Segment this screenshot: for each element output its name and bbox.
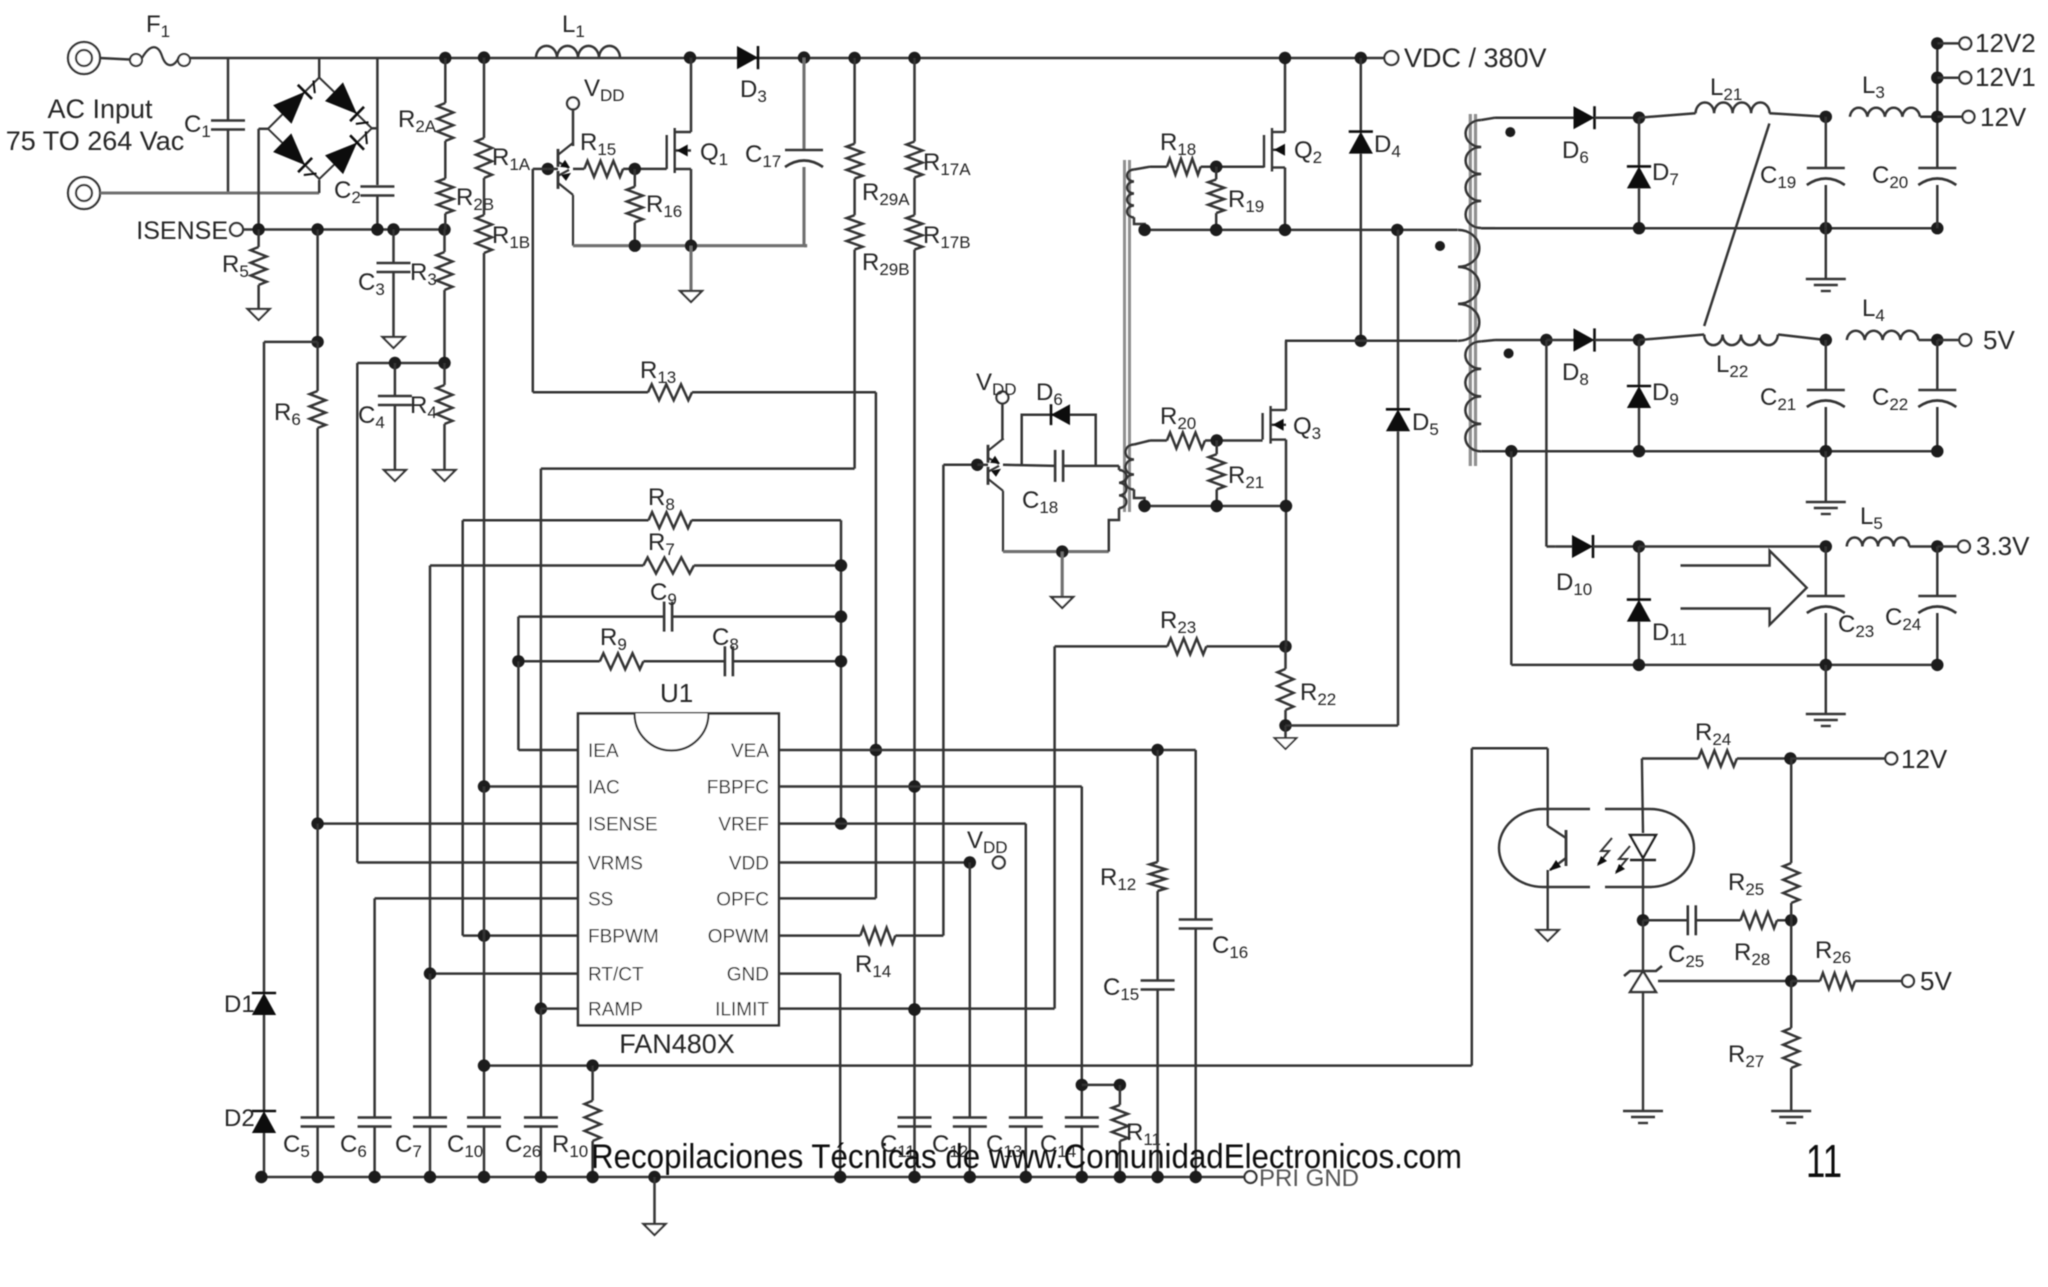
wire feedback to opto: [1471, 748, 1474, 1065]
junction FBPWM line-C10: [478, 1059, 490, 1071]
svg-text:ISENSE: ISENSE: [136, 217, 228, 245]
zener diode TL431: [1642, 920, 1644, 970]
wire VREF pin: [779, 822, 1026, 825]
junction C24 top: [1931, 540, 1943, 552]
junction Q2source-node: [1279, 224, 1291, 236]
ground 12V return: [1825, 228, 1828, 279]
fuse F1: [130, 54, 142, 66]
wire 12V2: [1937, 42, 1958, 45]
junction rail-GND: [834, 1171, 846, 1183]
wire AC bottom: [100, 191, 319, 194]
diode D6 snubber: [1051, 404, 1070, 425]
junction R28-R25: [1785, 914, 1797, 926]
ground zener: [1623, 1110, 1663, 1112]
junction R19-node: [1210, 224, 1222, 236]
diode D1: [252, 992, 276, 995]
terminal VDD driver2: [996, 392, 1008, 404]
wire VDD to totem1: [572, 110, 575, 147]
ground C4: [384, 470, 406, 481]
wire driver2 gnd stub: [1061, 552, 1064, 597]
junction C23-return: [1820, 659, 1832, 671]
svg-text:FBPWM: FBPWM: [588, 927, 659, 948]
inductor L22: [1639, 335, 1704, 341]
diode D8: [1546, 339, 1573, 342]
resistor R29A: [853, 58, 856, 144]
junction 12V: [1931, 111, 1943, 123]
wire base node: [548, 168, 558, 171]
wire R22 to D5: [1286, 724, 1399, 727]
wire bridge top to rail: [318, 58, 321, 78]
junction D11-return: [1633, 659, 1645, 671]
diode D3: [737, 46, 758, 69]
junction Q3source-node: [1280, 500, 1292, 512]
wire bridge right corner to C2 column: [372, 127, 378, 130]
wire IEA: [517, 661, 520, 750]
capacitor C21: [1807, 389, 1845, 392]
diode D11: [1638, 547, 1641, 600]
diode D7: [1638, 118, 1641, 167]
wire ISENSE pin: [318, 822, 578, 825]
svg-text:FBPFC: FBPFC: [707, 778, 769, 799]
wire Q2 drain: [1284, 58, 1287, 132]
ground R5: [248, 309, 270, 320]
junction VDD-C12: [964, 856, 976, 868]
wire to D1 column: [264, 341, 318, 344]
junction C9 right: [835, 610, 847, 622]
wire R23 left leg: [1053, 646, 1056, 1008]
resistor R28: [1741, 912, 1778, 928]
capacitor C4: [394, 363, 397, 396]
junction R9-IEA: [512, 655, 524, 667]
svg-text:OPFC: OPFC: [716, 889, 769, 910]
optocoupler body right: [1605, 809, 1694, 887]
wire R8 left to FBPWM: [461, 520, 464, 935]
junction R4 top: [438, 357, 450, 369]
resistor R2B: [437, 179, 453, 214]
terminal ISENSE: [230, 223, 243, 236]
wire 3V3 top: [1639, 545, 1826, 548]
wire Q2 source node: [1145, 229, 1458, 232]
resistor R26: [1820, 973, 1855, 989]
wire driver1 bottom: [573, 244, 807, 247]
transformer T1 core: [1469, 114, 1472, 466]
mosfet Q3: [1261, 413, 1263, 440]
junction 12V1: [1931, 72, 1943, 84]
capacitor C8: [643, 660, 725, 663]
inductor L3: [1850, 108, 1920, 117]
mosfet Q2: [1263, 135, 1265, 168]
wire Q3 drain node: [1285, 340, 1458, 343]
svg-text:ISENSE: ISENSE: [588, 815, 658, 836]
diode D4: [1360, 58, 1363, 132]
wire Q3 source: [1285, 440, 1288, 506]
terminal 12V2: [1959, 37, 1971, 49]
resistor R14: [860, 928, 895, 944]
junction ISENSE-R2B-R3: [438, 223, 450, 235]
capacitor C1: [227, 58, 230, 121]
resistor R17A: [913, 58, 916, 142]
wire 12V fb: [1790, 757, 1884, 760]
junction rail-C13: [1020, 1171, 1032, 1183]
capacitor C5: [316, 824, 319, 1118]
resistor R5: [257, 230, 260, 248]
wire ISENSE node: [243, 228, 445, 231]
wire Q3 drain: [1285, 341, 1288, 410]
transistor totem-pole driver Q1 (npn/pnp pair): [557, 149, 560, 167]
resistor R9: [518, 660, 599, 663]
junction ISENSE-C3: [387, 223, 399, 235]
resistor R6: [310, 391, 326, 428]
phase dot 5V winding: [1504, 348, 1514, 358]
wire 12V return rail: [1481, 227, 1937, 230]
svg-text:5V: 5V: [1920, 966, 1952, 996]
bridge diode upper-right: [325, 82, 357, 114]
resistor R29B: [853, 179, 856, 216]
junction IAC-R1B: [478, 780, 490, 792]
junction R22 bottom: [1279, 719, 1291, 731]
svg-text:12V: 12V: [1901, 744, 1948, 774]
junction rail-C16: [1190, 1171, 1202, 1183]
wire 12V outputs column: [1936, 43, 1939, 116]
phase dot 12V winding: [1505, 127, 1515, 137]
wire comp column right: [840, 520, 843, 823]
ground opto: [1537, 930, 1559, 941]
transistor totem-pole driver 2 (npn/pnp pair): [987, 445, 990, 463]
optocoupler body left: [1499, 809, 1590, 887]
junction ISENSE-C2: [371, 223, 383, 235]
svg-text:RT/CT: RT/CT: [588, 965, 644, 986]
transformer T2 upper secondary winding: [1127, 170, 1134, 218]
arrow symbol (power flow): [1681, 551, 1807, 625]
wire R7 left to RT/CT: [429, 566, 432, 974]
capacitor C3: [392, 230, 395, 264]
capacitor C24: [1936, 547, 1939, 597]
wire VEA pin: [779, 749, 1196, 752]
wire Q1 drain: [690, 58, 693, 132]
capacitor C2: [360, 185, 394, 188]
wire PRI GND rail: [261, 1176, 1244, 1179]
transformer T1 secondary 5V winding: [1465, 341, 1481, 451]
wire VRMS pin: [356, 363, 359, 863]
wire R15 to gate: [623, 168, 667, 171]
junction C22 top: [1931, 334, 1943, 346]
junction R10 top: [586, 1059, 598, 1071]
junction C23 top: [1820, 540, 1832, 552]
svg-text:IAC: IAC: [588, 778, 620, 799]
capacitor C10: [467, 1116, 501, 1119]
resistor R20: [1167, 433, 1205, 449]
svg-text:5V: 5V: [1983, 325, 2015, 355]
junction D4-rail: [1355, 52, 1367, 64]
inductor L5: [1847, 538, 1909, 547]
label VDC/380V terminal: [1384, 51, 1398, 65]
wire C13 column: [1025, 824, 1028, 1118]
junction R20-R21: [1211, 434, 1223, 446]
junction RAMP: [535, 1002, 547, 1014]
junction rail-C7: [424, 1171, 436, 1183]
svg-text:RAMP: RAMP: [588, 1000, 643, 1021]
wire C9 left down: [517, 617, 520, 662]
bridge diode lower-left: [273, 133, 305, 165]
wire zener to 5V node: [1658, 980, 1791, 983]
junction R17-ILIMIT: [908, 1003, 920, 1015]
junction D4 bottom: [1355, 335, 1367, 347]
terminal 5V fb: [1902, 975, 1914, 987]
junction 5Vreturn-3V3: [1505, 445, 1517, 457]
junction C8 right: [835, 655, 847, 667]
capacitor C18: [1054, 450, 1057, 482]
junction R17A-rail: [908, 52, 920, 64]
resistor R8: [463, 519, 649, 522]
svg-text:SS: SS: [588, 889, 613, 910]
junction 12V2: [1931, 37, 1943, 49]
capacitor C15: [1141, 979, 1175, 982]
opto LED: [1642, 759, 1643, 834]
junction VEA-R12: [1151, 744, 1163, 756]
junction R6 top: [311, 336, 323, 348]
svg-text:VREF: VREF: [718, 815, 769, 836]
resistor R12: [1156, 750, 1159, 862]
inductor L1: [536, 46, 620, 58]
wire 3.3V return rail: [1510, 451, 1513, 665]
transformer T1 primary winding: [1458, 230, 1479, 341]
diode D2: [252, 1110, 276, 1113]
mosfet Q1: [666, 135, 668, 169]
wire 3.3V out: [1937, 545, 1957, 548]
junction C4 top: [389, 357, 401, 369]
diode D10: [1555, 545, 1572, 548]
resistor R15: [584, 161, 623, 177]
junction R13col-VEA: [870, 744, 882, 756]
terminal PRI GND: [1245, 1171, 1257, 1183]
wire FBPFC to C14 column: [1081, 787, 1084, 1118]
wire VDD pin: [779, 861, 970, 864]
svg-text:D2: D2: [224, 1105, 255, 1132]
svg-text:IEA: IEA: [588, 741, 619, 762]
resistor R27: [1790, 981, 1793, 1028]
terminal VDD pin: [993, 857, 1005, 869]
resistor R2A: [444, 58, 447, 103]
junction R29A-rail: [848, 52, 860, 64]
svg-text:D1: D1: [224, 991, 255, 1018]
wire OPWM to totem2 base: [942, 465, 945, 936]
wire VDD2 stub: [1001, 404, 1004, 441]
junction R21-node: [1211, 500, 1223, 512]
junction C22-return: [1931, 445, 1943, 457]
junction 5Vfb node: [1785, 975, 1797, 987]
resistor R13: [532, 169, 535, 392]
AC input terminal bottom: [68, 177, 100, 209]
junction Q1 source node: [685, 240, 697, 252]
junction R15-R16: [629, 163, 641, 175]
capacitor C16: [1179, 918, 1213, 921]
diode D5: [1397, 230, 1400, 409]
junction totem1 base: [542, 163, 554, 175]
wire Q1 source to ground: [689, 246, 692, 291]
wire totem2 out to C18: [1003, 465, 1055, 466]
wire totem2 bottom: [1003, 550, 1109, 553]
resistor R1B: [476, 215, 492, 253]
capacitor C23: [1825, 547, 1828, 597]
junction R16 bottom: [629, 240, 641, 252]
wire 12V1: [1937, 76, 1958, 79]
transformer T2 core: [1123, 160, 1126, 512]
wire 5V winding top: [1495, 339, 1546, 342]
junction R7 right: [835, 559, 847, 571]
svg-text:OPWM: OPWM: [708, 927, 769, 948]
junction rail-C11: [908, 1171, 920, 1183]
wire D6 snubber loop: [1022, 415, 1096, 466]
wire Q2 source: [1284, 168, 1287, 230]
wire C12 column: [969, 863, 972, 1118]
opto light arrows: [1598, 838, 1612, 864]
bridge rectifier outline: [268, 78, 372, 180]
svg-text:VDD: VDD: [729, 854, 769, 875]
diode D9: [1638, 340, 1641, 386]
wire FBPWM pin: [463, 934, 578, 937]
capacitor C9: [518, 615, 664, 618]
junction VREF: [835, 817, 847, 829]
wire ISENSE to R6: [316, 230, 319, 342]
capacitor C14: [1065, 1116, 1099, 1119]
capacitor C7: [429, 974, 432, 1118]
wire R29B to RAMP column: [541, 467, 855, 470]
junction D10-D11: [1633, 540, 1645, 552]
transformer T2 primary winding: [1119, 470, 1126, 508]
junction C19 top: [1820, 111, 1832, 123]
resistor R17B: [913, 178, 916, 216]
wire VRMS filter node: [357, 362, 444, 365]
wire 12V: [1937, 116, 1961, 119]
capacitor C11: [898, 1116, 932, 1119]
resistor R3: [443, 230, 446, 253]
junction rail-C15: [1151, 1171, 1163, 1183]
wire C10 column: [483, 787, 486, 1118]
coupling diagonal L21-L22: [1704, 124, 1769, 327]
resistor R4: [443, 363, 446, 385]
ground 5V return: [1825, 451, 1828, 502]
wire IAC pin: [484, 785, 578, 788]
transformer T2 lower secondary winding: [1125, 445, 1134, 490]
svg-text:VRMS: VRMS: [588, 854, 643, 875]
wire C18 to T2 primary: [1063, 465, 1119, 468]
svg-text:3.3V: 3.3V: [1976, 531, 2030, 561]
junction C19-return: [1820, 222, 1832, 234]
wire Q1 source: [690, 169, 693, 246]
ground PRI GND rail: [653, 1177, 656, 1224]
wire ILIMIT pin: [779, 1007, 1055, 1010]
svg-text:75 TO 264 Vac: 75 TO 264 Vac: [6, 126, 185, 156]
wire RT/CT pin: [430, 972, 578, 975]
terminal 5V: [1959, 334, 1971, 346]
junction rail-C6: [368, 1171, 380, 1183]
junction Q1 drain-rail: [684, 51, 696, 63]
junction rail-R10: [586, 1171, 598, 1183]
resistor R16: [634, 169, 637, 187]
wire RAMP pin: [541, 1007, 578, 1010]
wire bridge left corner down: [259, 128, 268, 131]
inductor L4: [1847, 331, 1919, 340]
wire totem2 base: [977, 464, 988, 467]
junction rail-C14: [1076, 1171, 1088, 1183]
junction rail-C5: [311, 1171, 323, 1183]
junction R17B-FBPFC: [908, 780, 920, 792]
resistor R1A: [483, 58, 486, 138]
svg-text:GND: GND: [727, 965, 769, 986]
wire OPWM pin: [779, 934, 861, 937]
ground 3.3V return: [1825, 665, 1828, 714]
junction T2low-node: [1138, 500, 1150, 512]
junction D10 branch: [1540, 334, 1552, 346]
resistor R10: [591, 1066, 594, 1101]
junction C20-return: [1931, 222, 1943, 234]
wire OPFC pin: [779, 897, 876, 900]
junction R18-R19: [1210, 161, 1222, 173]
junction ISENSE-R5: [252, 223, 264, 235]
junction R24-R25: [1784, 752, 1796, 764]
junction RTCT-R7: [424, 967, 436, 979]
resistor R7: [430, 564, 643, 567]
capacitor C12: [953, 1116, 987, 1119]
svg-text:ILIMIT: ILIMIT: [715, 1000, 769, 1021]
opto transistor: [1546, 748, 1548, 826]
bridge diode lower-right: [325, 143, 357, 175]
ground driver2: [1051, 597, 1073, 608]
junction LED-C25: [1637, 914, 1649, 926]
junction D7-return: [1633, 222, 1645, 234]
svg-text:12V1: 12V1: [1975, 62, 2036, 92]
ground Q1: [680, 291, 702, 302]
junction C24-return: [1931, 659, 1943, 671]
wire SS pin: [375, 897, 578, 900]
junction rail-gnd: [648, 1171, 660, 1183]
capacitor C22: [1918, 389, 1956, 392]
wire top rail: [190, 57, 1384, 60]
ground R22: [1284, 726, 1287, 739]
svg-text:U1: U1: [660, 678, 693, 708]
wire GND pin: [779, 972, 840, 975]
junction rail-C26: [535, 1171, 547, 1183]
junction C21-return: [1820, 445, 1832, 457]
capacitor C26: [540, 1009, 543, 1118]
wire 5V out: [1937, 339, 1958, 342]
junction R23-R22-Q3: [1279, 640, 1291, 652]
wire R11 jog: [1082, 1084, 1120, 1087]
junction driver2 ground: [1056, 545, 1068, 557]
ground C3: [383, 337, 405, 348]
resistor R21: [1215, 441, 1218, 455]
junction rail-R1A: [478, 51, 490, 63]
wire R24 node: [1642, 757, 1698, 760]
resistor R24: [1698, 751, 1737, 767]
ground R27: [1771, 1110, 1811, 1112]
svg-text:12V: 12V: [1980, 102, 2027, 132]
svg-text:11: 11: [1806, 1135, 1842, 1187]
junction FBPWM-C10: [478, 929, 490, 941]
wire FBPWM feedback line: [484, 1064, 1472, 1067]
resistor R22: [1284, 646, 1287, 669]
wire C16 column: [1194, 750, 1197, 920]
terminal 12V fb: [1885, 753, 1897, 765]
svg-text:VDC / 380V: VDC / 380V: [1404, 43, 1547, 73]
junction ISENSE pin-R6: [311, 817, 323, 829]
capacitor C19: [1825, 117, 1828, 168]
diode D6 rectifier: [1530, 116, 1574, 119]
svg-text:12V2: 12V2: [1975, 28, 2036, 58]
junction rail-R2A: [439, 52, 451, 64]
phase dot T1 primary: [1435, 241, 1445, 251]
transformer T1 secondary 12V winding: [1466, 120, 1482, 228]
